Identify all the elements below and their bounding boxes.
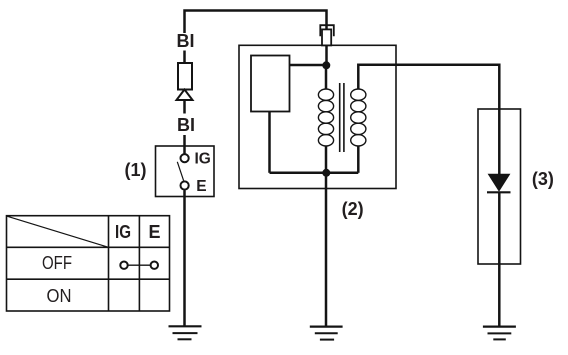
diode box (3) outline [478,109,521,264]
table row line 2 [7,278,170,280]
wire: secondary bottom lead [357,146,360,173]
diode D1 (filled) [489,174,510,191]
table contact link line [126,264,151,266]
ground G1 (left) [169,326,202,339]
wire: triangle to BI label [183,101,186,114]
svg-text:BI: BI [177,115,195,135]
wire: below BI label into fuse [183,51,186,65]
node: bottom junction [322,169,330,177]
wire: BI label down into switch box [183,135,186,154]
table column line 2 [138,216,140,311]
wire: IC bottom lead [268,112,271,173]
svg-text:E: E [196,178,206,195]
table header diagonal [7,216,109,247]
IC block inside igniter [251,56,290,112]
wire: secondary top out to diode block [358,65,499,175]
wire: bottom junction to ground [325,173,328,326]
ground G2 (middle) [310,327,343,340]
wire: connector to top junction [325,45,328,65]
connector bracket (female) [320,25,334,36]
transformer core [339,83,341,152]
svg-text:OFF: OFF [42,252,72,273]
svg-text:IG: IG [115,222,131,242]
svg-text:(2): (2) [342,199,364,219]
fusible-link triangle [177,90,193,101]
secondary coil L2 [351,89,366,146]
table row line 1 [7,246,170,248]
node: top junction [322,61,330,69]
fuse F1 (rectangle) [178,63,192,90]
svg-text:ON: ON [47,285,72,306]
igniter box (2) outline [239,45,396,188]
svg-text:BI: BI [177,31,195,51]
table column line 1 [108,216,110,311]
wire: IC to top junction [290,64,327,67]
table contact circle IG [120,262,127,269]
switch box (1) outline [156,146,215,197]
primary coil L1 [318,89,333,146]
switch lever [177,162,183,181]
switch terminal E [181,181,189,189]
wire: junction down to primary coil [325,65,328,89]
wire: diode to ground [498,192,501,326]
truth table frame [7,216,170,311]
wire: primary coil to bottom junction [325,146,328,173]
svg-text:IG: IG [195,150,211,167]
connector terminal (male) [322,29,331,45]
ground G3 (right) [483,327,516,340]
svg-text:(3): (3) [532,169,554,189]
wire: bottom bus inside igniter [270,172,359,175]
svg-text:(1): (1) [125,160,147,180]
svg-text:E: E [148,222,160,242]
wire: top feed from fuse branch to connector [185,11,327,34]
diode D1 cathode bar [487,191,511,193]
wire: E terminal down to ground [183,190,186,326]
table contact circle E [151,262,158,269]
switch terminal IG [181,154,189,162]
